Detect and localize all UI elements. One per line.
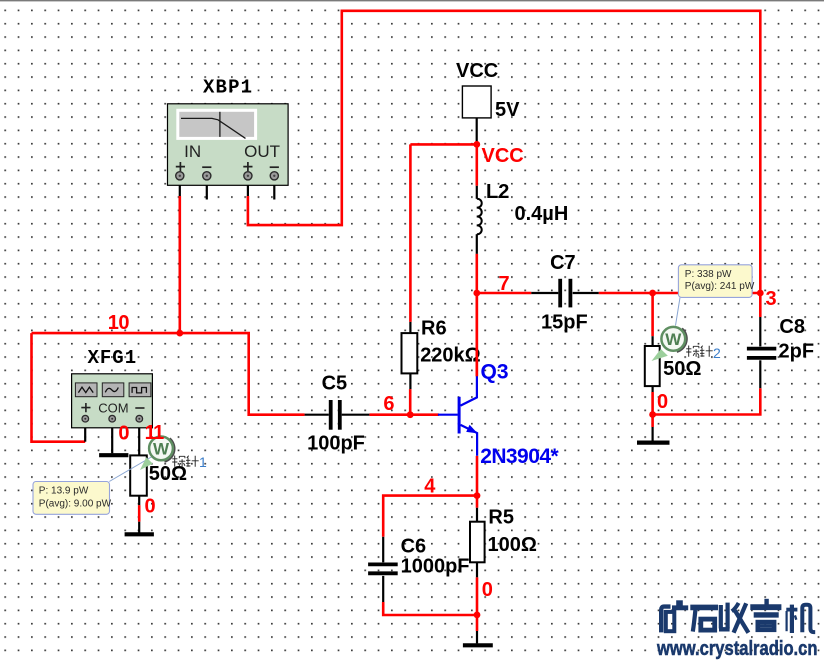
svg-text:P(avg): 9.00 pW: P(avg): 9.00 pW [39,499,112,510]
svg-text:C5: C5 [322,373,348,395]
svg-text:www.crystalradio.cn: www.crystalradio.cn [656,638,817,660]
svg-text:P(avg): 241 pW: P(avg): 241 pW [685,281,755,292]
svg-text:0: 0 [657,391,668,413]
svg-text:VCC: VCC [482,145,524,167]
svg-text:W: W [665,330,682,349]
svg-text:3: 3 [766,288,777,310]
svg-text:C7: C7 [550,252,576,274]
svg-text:5V: 5V [495,99,520,121]
svg-text:IN: IN [184,142,201,161]
svg-text:XBP1: XBP1 [203,77,252,99]
svg-text:0: 0 [482,579,493,601]
svg-text:15pF: 15pF [541,312,588,334]
svg-text:50Ω: 50Ω [149,463,187,485]
svg-text:100pF: 100pF [307,433,365,455]
svg-text:OUT: OUT [244,142,280,161]
svg-text:0: 0 [118,422,129,444]
svg-text:P: 338 pW: P: 338 pW [685,269,732,280]
svg-text:4: 4 [424,476,436,498]
svg-text:10: 10 [108,312,130,334]
svg-text:220kΩ: 220kΩ [420,345,481,367]
svg-text:0.4µH: 0.4µH [515,203,569,225]
svg-text:COM: COM [98,400,128,415]
svg-text:C8: C8 [779,316,805,338]
svg-text:2pF: 2pF [779,340,815,362]
svg-text:XFG1: XFG1 [88,347,137,369]
svg-text:0: 0 [145,496,156,518]
svg-text:1: 1 [199,454,207,470]
svg-text:6: 6 [383,393,394,415]
svg-text:7: 7 [499,273,510,295]
svg-text:2: 2 [713,345,721,361]
svg-text:VCC: VCC [456,60,498,82]
svg-text:Q3: Q3 [481,361,509,384]
svg-text:2N3904*: 2N3904* [480,445,559,468]
svg-text:C6: C6 [401,535,427,557]
svg-text:11: 11 [145,422,165,444]
svg-text:100Ω: 100Ω [488,534,537,556]
svg-text:L2: L2 [486,181,509,203]
svg-text:P: 13.9 pW: P: 13.9 pW [39,486,89,497]
svg-text:R5: R5 [488,506,514,528]
svg-text:50Ω: 50Ω [663,358,701,380]
svg-text:R6: R6 [421,317,447,339]
svg-text:1000pF: 1000pF [401,556,470,578]
